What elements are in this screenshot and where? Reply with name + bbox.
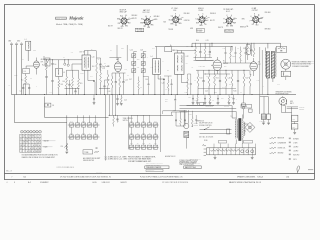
AVC return wire bbox=[15, 95, 109, 123]
svg-text:SOCKET: SOCKET bbox=[299, 109, 304, 111]
filter capacitors C-30 C-31 bbox=[292, 115, 298, 134]
svg-text:1ST I.F.: 1ST I.F. bbox=[80, 52, 86, 54]
svg-text:OSC: OSC bbox=[137, 59, 140, 61]
svg-text:18: 18 bbox=[26, 139, 28, 141]
svg-text:6D6: 6D6 bbox=[41, 59, 44, 61]
oscillator coil L-4 bbox=[151, 46, 173, 94]
svg-text:R-1: R-1 bbox=[21, 80, 23, 82]
svg-text:.5 MEG: .5 MEG bbox=[232, 56, 236, 58]
svg-text:R-7: R-7 bbox=[110, 50, 112, 52]
svg-text:18: 18 bbox=[20, 145, 22, 147]
svg-text:C-52: C-52 bbox=[142, 133, 145, 135]
svg-text:SC: SC bbox=[258, 14, 260, 16]
svg-text:C-17: C-17 bbox=[129, 79, 132, 81]
svg-text:R-15: R-15 bbox=[216, 77, 219, 79]
svg-text:C-6: C-6 bbox=[54, 64, 56, 66]
ballast lamp assembly bbox=[184, 110, 193, 149]
chart footnote bbox=[22, 154, 59, 159]
IF transformer T2 bbox=[172, 50, 196, 94]
svg-text:C-19: C-19 bbox=[145, 79, 148, 81]
svg-text:H: H bbox=[254, 14, 255, 16]
svg-text:R-3: R-3 bbox=[61, 84, 63, 86]
tube V2 6A7 bbox=[100, 45, 172, 73]
svg-text:BOTTOM VIEW: BOTTOM VIEW bbox=[136, 31, 145, 33]
svg-text:0: 0 bbox=[33, 151, 34, 153]
switch inter-row links bbox=[72, 127, 156, 145]
svg-text:T-2: T-2 bbox=[231, 116, 233, 118]
svg-text:C-31 C-32: C-31 C-32 bbox=[96, 172, 102, 174]
svg-text:GND: GND bbox=[17, 41, 20, 43]
svg-text:C-28: C-28 bbox=[243, 48, 246, 50]
svg-text:C-50: C-50 bbox=[130, 121, 133, 123]
svg-text:C-11: C-11 bbox=[102, 68, 105, 70]
svg-text:50M: 50M bbox=[165, 101, 167, 103]
svg-text:FUSE: FUSE bbox=[204, 140, 208, 142]
volume control R-20 bbox=[61, 143, 69, 154]
svg-text:K: K bbox=[179, 15, 180, 17]
svg-text:PILOT LT.: PILOT LT. bbox=[299, 107, 305, 109]
svg-text:41: 41 bbox=[258, 61, 260, 63]
audio RC network R14-R18 bbox=[161, 70, 251, 95]
svg-text:R-21: R-21 bbox=[165, 98, 168, 100]
svg-text:75 2ND DET.: 75 2ND DET. bbox=[223, 9, 234, 11]
ground bus wire bbox=[12, 94, 297, 96]
svg-text:6D6: 6D6 bbox=[173, 10, 176, 12]
svg-text:1: 1 bbox=[21, 131, 22, 133]
svg-text:GRN: GRN bbox=[121, 26, 124, 28]
rectifier plug (bottom view) bbox=[245, 122, 255, 132]
svg-text:2: 2 bbox=[21, 151, 22, 153]
svg-text:BRN: BRN bbox=[200, 25, 203, 27]
svg-text:1 2 3 4 5 6 7 8 9 10: 1 2 3 4 5 6 7 8 9 10 11 12 13 14 15 16 bbox=[162, 182, 188, 184]
svg-text:6: 6 bbox=[36, 142, 37, 144]
svg-text:R-9: R-9 bbox=[166, 89, 168, 91]
value labels bbox=[9, 46, 280, 94]
svg-text:R-22: R-22 bbox=[189, 113, 192, 115]
symbol legend left col bbox=[270, 137, 286, 154]
svg-text:C33: C33 bbox=[292, 127, 295, 129]
svg-text:B-5: B-5 bbox=[24, 176, 27, 178]
svg-text:25: 25 bbox=[36, 145, 38, 147]
svg-text:C-50: C-50 bbox=[130, 143, 133, 145]
svg-text:C-42: C-42 bbox=[82, 121, 85, 123]
R7 R8 C13 C14 strings bbox=[107, 73, 127, 95]
svg-text:P: P bbox=[150, 16, 151, 18]
svg-text:0: 0 bbox=[36, 148, 37, 150]
svg-text:C-2 .05 MFD 400 V. C-10 .: C-2 .05 MFD 400 V. C-10 .1 MFD bbox=[105, 159, 129, 161]
svg-text:C-22: C-22 bbox=[186, 56, 189, 58]
C6 R2 L2 network bbox=[42, 56, 82, 95]
tuning trimmers C16-C21 bbox=[129, 49, 150, 94]
svg-text:BLK TR: BLK TR bbox=[108, 26, 113, 28]
svg-text:C-2: C-2 bbox=[140, 87, 142, 89]
svg-text:R-17: R-17 bbox=[246, 77, 249, 79]
svg-text:95: 95 bbox=[23, 145, 25, 147]
svg-text:OUT: OUT bbox=[258, 64, 261, 66]
checkmark bbox=[297, 166, 300, 174]
svg-text:RED: RED bbox=[125, 26, 128, 28]
C-7 bypass to ground bbox=[93, 95, 96, 105]
svg-text:RED BLK: RED BLK bbox=[265, 12, 271, 14]
svg-text:95: 95 bbox=[33, 136, 35, 138]
svg-text:50M: 50M bbox=[125, 69, 127, 71]
output filter box bbox=[277, 46, 287, 52]
svg-text:2: 2 bbox=[27, 145, 28, 147]
svg-text:LT. OSC.: LT. OSC. bbox=[171, 8, 178, 10]
svg-text:C-9: C-9 bbox=[100, 70, 102, 72]
svg-text:GRN TR: GRN TR bbox=[132, 18, 137, 20]
svg-text:DET. OSC.: DET. OSC. bbox=[143, 12, 151, 14]
svg-text:RED TR: RED TR bbox=[118, 28, 123, 30]
svg-text:25: 25 bbox=[30, 151, 32, 153]
svg-text:YEL: YEL bbox=[204, 24, 207, 26]
tube V5 6X5 rect bbox=[279, 97, 305, 111]
svg-text:P: P bbox=[250, 20, 251, 22]
svg-text:6: 6 bbox=[30, 148, 31, 150]
svg-text:.02 MFD: .02 MFD bbox=[293, 150, 298, 152]
power label box bbox=[241, 104, 251, 108]
svg-text:7: 7 bbox=[33, 142, 34, 144]
antenna coil L1 bbox=[25, 39, 31, 61]
svg-text:BLK: BLK bbox=[164, 22, 167, 24]
model subtitle bbox=[56, 23, 83, 26]
svg-text:300: 300 bbox=[167, 70, 169, 72]
svg-text:K: K bbox=[227, 15, 228, 17]
speaker note bbox=[276, 91, 292, 96]
tube socket S1 (6D6 R.F.) bbox=[117, 9, 131, 28]
svg-text:K: K bbox=[202, 14, 203, 16]
border frame bbox=[4, 5, 315, 180]
tone switch label bbox=[83, 148, 99, 154]
dash mark bbox=[308, 169, 313, 171]
svg-text:6: 6 bbox=[39, 139, 40, 141]
bus junction dots bbox=[25, 94, 268, 95]
svg-text:C-5: C-5 bbox=[20, 90, 22, 92]
svg-text:6: 6 bbox=[33, 145, 34, 147]
svg-text:RED BLK: RED BLK bbox=[132, 15, 138, 17]
svg-text:0: 0 bbox=[21, 142, 22, 144]
svg-text:L-2: L-2 bbox=[63, 72, 65, 74]
svg-text:R-6: R-6 bbox=[92, 66, 94, 68]
svg-text:C-44: C-44 bbox=[94, 133, 97, 135]
svg-text:0: 0 bbox=[39, 145, 40, 147]
svg-text:C-20: C-20 bbox=[162, 82, 165, 84]
R4 R5 C9 screen divider bbox=[63, 64, 83, 95]
svg-text:C-33: C-33 bbox=[216, 103, 219, 105]
footer row 2 bbox=[7, 181, 261, 184]
svg-text:2: 2 bbox=[36, 136, 37, 138]
svg-text:C-54: C-54 bbox=[154, 143, 157, 145]
svg-text:95: 95 bbox=[39, 151, 41, 153]
transformer primary wires bbox=[180, 106, 237, 118]
svg-text:POWER: POWER bbox=[242, 106, 247, 108]
svg-text:50M: 50M bbox=[224, 66, 226, 68]
on-off switch SW1 bbox=[194, 120, 232, 142]
tube V4 41 output bbox=[250, 58, 261, 76]
svg-text:C-30 C-31: C-30 C-31 bbox=[260, 121, 266, 123]
svg-text:P: P bbox=[175, 14, 176, 16]
svg-text:RECT.: RECT. bbox=[290, 103, 294, 105]
svg-text:R-23 400: R-23 400 bbox=[224, 106, 229, 108]
audio text labels bbox=[199, 65, 242, 93]
svg-text:BRN: BRN bbox=[117, 19, 120, 21]
svg-text:0: 0 bbox=[27, 136, 28, 138]
svg-text:R-14: R-14 bbox=[200, 77, 203, 79]
tube socket S4 (6D6 I.F.) bbox=[195, 8, 209, 27]
svg-text:2: 2 bbox=[24, 148, 25, 150]
IF transformer T1 bbox=[80, 51, 97, 95]
svg-text:C-13: C-13 bbox=[107, 91, 110, 93]
svg-text:ON-OFF SWITCH ON: ON-OFF SWITCH ON bbox=[199, 123, 212, 125]
svg-text:H: H bbox=[206, 16, 207, 18]
svg-text:C-18: C-18 bbox=[151, 67, 154, 69]
svg-text:C-23: C-23 bbox=[206, 40, 209, 42]
svg-text:G-3: G-3 bbox=[171, 15, 173, 17]
detector feed wires bbox=[163, 95, 198, 127]
svg-text:GRN: GRN bbox=[147, 27, 150, 29]
svg-text:2 MEG: 2 MEG bbox=[80, 73, 84, 75]
svg-text:C-6: C-6 bbox=[63, 57, 65, 59]
svg-text:KC: KC bbox=[192, 67, 194, 69]
speaker bbox=[281, 59, 291, 80]
svg-text:7: 7 bbox=[24, 151, 25, 153]
svg-text:95: 95 bbox=[30, 139, 32, 141]
parts list col C bbox=[128, 155, 156, 162]
voltage chart grid bbox=[20, 134, 41, 153]
svg-text:G-3: G-3 bbox=[125, 15, 127, 17]
detector wires bbox=[196, 60, 230, 75]
svg-text:7: 7 bbox=[39, 136, 40, 138]
svg-text:6: 6 bbox=[27, 151, 28, 153]
svg-text:ELECTRO: ELECTRO bbox=[293, 154, 299, 156]
footer note above line bbox=[57, 167, 75, 169]
svg-text:C-54: C-54 bbox=[154, 121, 157, 123]
tube V1 6D6 R.F. bbox=[34, 58, 44, 75]
svg-text:C-17: C-17 bbox=[152, 48, 155, 50]
svg-text:75: 75 bbox=[223, 60, 225, 62]
svg-text:456: 456 bbox=[186, 63, 188, 65]
svg-text:7: 7 bbox=[36, 139, 37, 141]
svg-text:41 OUT: 41 OUT bbox=[252, 8, 257, 10]
svg-text:R-2: R-2 bbox=[42, 64, 44, 66]
output transformer T3 bbox=[260, 47, 276, 95]
svg-text:6D6 I.F.: 6D6 I.F. bbox=[198, 8, 205, 10]
svg-text:BLU: BLU bbox=[120, 15, 123, 17]
svg-text:C-40: C-40 bbox=[70, 133, 73, 135]
svg-text:2: 2 bbox=[33, 139, 34, 141]
tone parts bbox=[113, 115, 119, 126]
svg-text:C-24: C-24 bbox=[223, 48, 226, 50]
svg-text:K: K bbox=[251, 16, 252, 18]
socket caption box bbox=[135, 28, 233, 33]
svg-text:SC: SC bbox=[207, 20, 209, 22]
svg-text:INTERLOCK: INTERLOCK bbox=[197, 120, 205, 122]
svg-text:BLK: BLK bbox=[259, 22, 262, 24]
svg-text:GRID: GRID bbox=[33, 50, 36, 52]
svg-text:R-2: R-2 bbox=[50, 92, 52, 94]
svg-text:C-28: C-28 bbox=[195, 100, 198, 102]
filter caps C-30 C-31 small bbox=[260, 114, 271, 125]
svg-text:FROM WIRING SIDE: FROM WIRING SIDE bbox=[276, 94, 289, 96]
svg-text:GRN: GRN bbox=[178, 23, 181, 25]
svg-text:1 MEG: 1 MEG bbox=[207, 54, 211, 56]
svg-text:R-15 1 MEG: R-15 1 MEG bbox=[199, 65, 206, 67]
svg-text:C-23: C-23 bbox=[185, 91, 188, 93]
svg-text:BLU: BLU bbox=[141, 18, 144, 20]
svg-text:C-1: C-1 bbox=[22, 59, 24, 61]
svg-text:C-14: C-14 bbox=[125, 79, 128, 81]
svg-text:CONDENSER: CONDENSER bbox=[278, 143, 286, 145]
svg-text:18: 18 bbox=[39, 148, 41, 150]
svg-text:18: 18 bbox=[30, 136, 32, 138]
svg-text:C-44: C-44 bbox=[94, 121, 97, 123]
svg-text:RED TR: RED TR bbox=[218, 27, 223, 29]
svg-text:C-54: C-54 bbox=[154, 133, 157, 135]
svg-text:P: P bbox=[198, 15, 199, 17]
fuse plug column bbox=[242, 95, 245, 119]
svg-text:BLU: BLU bbox=[256, 25, 259, 27]
svg-text:LOOP: LOOP bbox=[14, 75, 18, 77]
svg-text:R-5: R-5 bbox=[80, 83, 82, 85]
svg-text:RED: RED bbox=[151, 24, 154, 26]
svg-text:B+: B+ bbox=[170, 45, 172, 47]
wave band switch left rows bbox=[68, 121, 100, 139]
svg-text:BLK: BLK bbox=[128, 22, 131, 24]
filament resistor string bbox=[190, 144, 256, 161]
svg-text:G-3: G-3 bbox=[223, 23, 225, 25]
svg-text:18: 18 bbox=[23, 142, 25, 144]
svg-text:RED BLK: RED BLK bbox=[184, 13, 190, 15]
svg-text:95: 95 bbox=[26, 142, 28, 144]
R6 C11 strings bbox=[92, 51, 108, 95]
svg-text:VOL: VOL bbox=[61, 146, 64, 148]
bypass caps below bus bbox=[165, 95, 237, 109]
svg-text:G-3: G-3 bbox=[252, 24, 254, 26]
svg-text:VOICE COIL 2 OHMS D.C. RES.: VOICE COIL 2 OHMS D.C. RES. bbox=[292, 61, 312, 63]
interstage RC strings bbox=[223, 45, 252, 68]
svg-text:CHOKE COIL: CHOKE COIL bbox=[278, 148, 286, 150]
svg-text:YEL: YEL bbox=[143, 26, 146, 28]
svg-text:BLU TR: BLU TR bbox=[210, 20, 215, 22]
svg-text:C-25: C-25 bbox=[205, 91, 208, 93]
svg-text:L-4: L-4 bbox=[151, 56, 153, 58]
C15 R9 below bus bbox=[116, 95, 127, 105]
socket color tags bbox=[108, 8, 271, 33]
svg-text:Majestic: Majestic bbox=[68, 16, 84, 21]
svg-text:GRN YEL: GRN YEL bbox=[184, 20, 190, 22]
svg-text:UNLESS NOTED: UNLESS NOTED bbox=[83, 160, 94, 162]
svg-text:RED: RED bbox=[155, 19, 158, 21]
bottom right small text bbox=[165, 155, 199, 166]
svg-text:C-15: C-15 bbox=[124, 99, 127, 101]
page number bbox=[6, 170, 12, 173]
svg-text:C-29: C-29 bbox=[221, 98, 224, 100]
svg-text:C-50: C-50 bbox=[130, 133, 133, 135]
svg-text:L-6: L-6 bbox=[191, 126, 193, 128]
voice coil labels bbox=[291, 61, 314, 67]
B+ feed wires right bbox=[249, 95, 299, 130]
svg-text:.1 MFD: .1 MFD bbox=[293, 142, 297, 144]
svg-text:7: 7 bbox=[30, 145, 31, 147]
svg-text:L-1: L-1 bbox=[25, 39, 27, 41]
svg-text:C-26: C-26 bbox=[229, 84, 232, 86]
power transformer T4 bbox=[231, 112, 249, 145]
Majestic script title bbox=[68, 16, 84, 21]
svg-text:6: 6 bbox=[21, 136, 22, 138]
svg-text:TR GRN: TR GRN bbox=[168, 29, 173, 31]
AVC bus wire bbox=[65, 88, 111, 90]
footer row 1 bbox=[12, 175, 290, 178]
svg-text:G-3: G-3 bbox=[195, 18, 197, 20]
svg-text:TONE: TONE bbox=[84, 152, 88, 154]
svg-text:95: 95 bbox=[20, 148, 22, 150]
parts list col A bbox=[105, 156, 129, 160]
svg-text:BLU: BLU bbox=[196, 23, 199, 25]
diode load cluster bbox=[172, 109, 188, 126]
B+ top rails bbox=[155, 43, 281, 51]
R10-R13 divider bbox=[194, 40, 213, 60]
svg-text:R-15: R-15 bbox=[222, 87, 225, 89]
svg-text:C32: C32 bbox=[292, 119, 295, 121]
svg-text:P-75: P-75 bbox=[277, 84, 280, 86]
svg-text:GRN BLK: GRN BLK bbox=[154, 16, 160, 18]
svg-text:R-10: R-10 bbox=[196, 40, 199, 42]
svg-text:7: 7 bbox=[40, 131, 41, 133]
wave band switch right rows bbox=[129, 121, 159, 149]
svg-text:C-4: C-4 bbox=[24, 71, 26, 73]
svg-text:GRN: GRN bbox=[190, 28, 193, 30]
svg-text:C-8: C-8 bbox=[52, 105, 54, 107]
svg-text:C-10: C-10 bbox=[92, 57, 95, 59]
svg-text:BRN: BRN bbox=[230, 26, 233, 28]
svg-text:Models 780A, 790A (Ch. 780A): Models 780A, 790A (Ch. 780A) bbox=[56, 23, 83, 26]
tube socket S5 (75 2ND DET.) bbox=[223, 9, 237, 28]
svg-text:YEL: YEL bbox=[246, 26, 249, 28]
svg-text:H: H bbox=[181, 19, 182, 21]
svg-text:6A7 1ST: 6A7 1ST bbox=[143, 9, 151, 12]
stamp boxes bbox=[145, 162, 201, 172]
tone control bus bbox=[109, 95, 174, 122]
ladder feed boxes bbox=[219, 140, 253, 143]
svg-text:C-52: C-52 bbox=[142, 143, 145, 145]
svg-text:C-42: C-42 bbox=[82, 133, 85, 135]
svg-text:R-4: R-4 bbox=[63, 81, 65, 83]
svg-text:BLU: BLU bbox=[169, 20, 172, 22]
svg-text:C-22 C-23 .25 MFD 200 V.: C-22 C-23 .25 MFD 200 V. bbox=[57, 167, 75, 169]
svg-text:0: 0 bbox=[24, 139, 25, 141]
svg-text:R-18: R-18 bbox=[257, 80, 260, 82]
svg-text:GRN: GRN bbox=[242, 18, 245, 20]
svg-text:25: 25 bbox=[33, 148, 35, 150]
svg-text:BLU: BLU bbox=[226, 26, 229, 28]
svg-text:BLK: BLK bbox=[189, 97, 191, 99]
svg-text:250M: 250M bbox=[214, 92, 217, 94]
svg-text:R-6: R-6 bbox=[104, 63, 106, 65]
svg-text:2: 2 bbox=[30, 142, 31, 144]
socket chart circles bbox=[21, 130, 42, 133]
svg-text:P: P bbox=[224, 18, 225, 20]
tube V3 75 bbox=[211, 57, 229, 74]
Majestic logo box bbox=[55, 17, 68, 20]
svg-text:RESISTOR: RESISTOR bbox=[278, 138, 285, 140]
switch feed wires bbox=[67, 95, 161, 161]
svg-text:C: C bbox=[118, 121, 119, 123]
tiny note above footer bbox=[96, 172, 102, 174]
svg-text:.05 MFD: .05 MFD bbox=[293, 146, 298, 148]
svg-text:B: B bbox=[14, 182, 15, 184]
tube socket S3 (LT. OSC.) bbox=[169, 8, 184, 27]
svg-text:SWITCH: SWITCH bbox=[123, 120, 128, 122]
